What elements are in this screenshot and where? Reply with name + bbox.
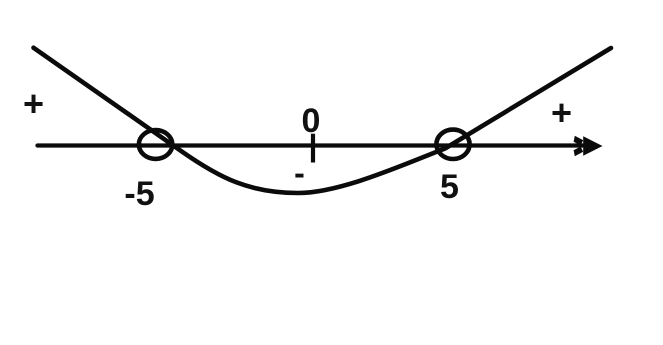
label -5 (119, 175, 160, 214)
open circle at -5 (139, 130, 173, 159)
arrowhead (574, 136, 603, 156)
x-axis (38, 143, 586, 147)
plus sign left (21, 83, 46, 125)
label 0 (299, 102, 323, 141)
open circle at 5 (436, 130, 469, 159)
plus sign right (549, 92, 574, 134)
parabola curve (34, 48, 612, 193)
label 5 (437, 168, 462, 207)
minus sign (287, 155, 312, 192)
tick at 0 (311, 134, 315, 163)
